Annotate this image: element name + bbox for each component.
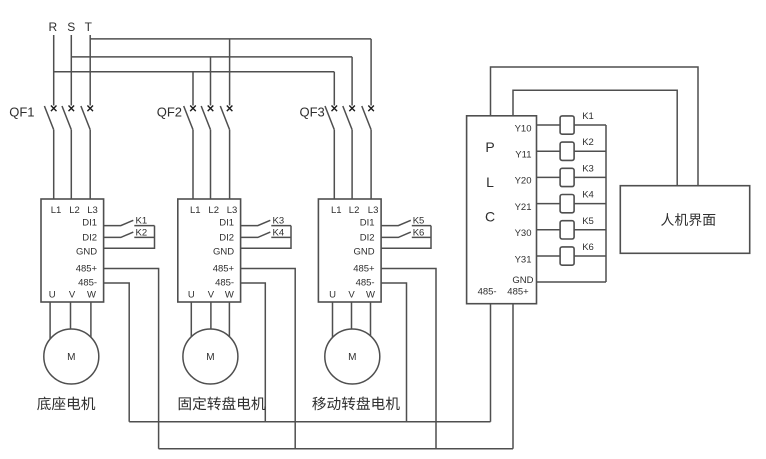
VFD3 inverter box bbox=[318, 199, 381, 302]
contact K4 (VFD2 DI2) bbox=[241, 227, 291, 238]
VFD2 inverter box bbox=[178, 199, 241, 302]
svg-text:DI2: DI2 bbox=[360, 233, 375, 244]
wire 485+ bottom bus bbox=[159, 448, 513, 450]
motor M3 bbox=[325, 329, 380, 384]
PLC terminal labels bbox=[478, 123, 534, 297]
PLC box bbox=[467, 116, 537, 304]
wire T bus bbox=[90, 38, 371, 40]
relay coil K3 bbox=[560, 163, 594, 186]
svg-text:K4: K4 bbox=[272, 227, 284, 238]
wire VFD1 contacts common to GND bbox=[104, 226, 155, 249]
wire PLC output Y30 row bbox=[537, 229, 607, 231]
relay coil K5 bbox=[560, 216, 594, 239]
svg-text:K5: K5 bbox=[413, 216, 425, 227]
svg-text:485+: 485+ bbox=[76, 264, 98, 275]
wire VFD2 485- bbox=[241, 283, 266, 422]
wire VFD1 485- bbox=[104, 283, 130, 422]
svg-text:K5: K5 bbox=[582, 216, 594, 227]
wire drop R bus to QF2 pole1 bbox=[192, 72, 194, 106]
svg-text:L2: L2 bbox=[69, 205, 80, 216]
svg-text:DI1: DI1 bbox=[219, 218, 234, 229]
wire PLC to HMI inner link bbox=[513, 90, 677, 186]
svg-text:485-: 485- bbox=[356, 278, 375, 289]
svg-text:M: M bbox=[67, 352, 75, 363]
svg-text:L: L bbox=[486, 174, 494, 190]
wire PLC 485- drop bbox=[490, 304, 492, 422]
wire drop R bus to QF3 pole1 bbox=[333, 72, 335, 106]
wire VFD3 485- bbox=[381, 283, 406, 422]
svg-text:K6: K6 bbox=[413, 227, 425, 238]
svg-text:M: M bbox=[348, 352, 356, 363]
svg-text:DI2: DI2 bbox=[219, 233, 234, 244]
svg-text:Y10: Y10 bbox=[515, 123, 532, 134]
wire relay common to PLC GND bbox=[537, 281, 607, 283]
svg-text:485-: 485- bbox=[78, 278, 97, 289]
wire PLC output Y11 row bbox=[537, 150, 607, 152]
HMI box 人机界面 bbox=[620, 186, 749, 254]
wire VFD2 contacts common to GND bbox=[241, 226, 291, 249]
svg-text:K2: K2 bbox=[582, 137, 594, 148]
svg-text:U: U bbox=[49, 290, 56, 301]
svg-text:L1: L1 bbox=[331, 205, 342, 216]
svg-text:485+: 485+ bbox=[353, 264, 375, 275]
motor1 caption 底座电机 bbox=[37, 397, 95, 411]
svg-text:L3: L3 bbox=[368, 205, 379, 216]
svg-text:K3: K3 bbox=[272, 216, 284, 227]
motor3 caption 移动转盘电机 bbox=[312, 397, 399, 411]
wire motor2 U V W leads bbox=[191, 302, 229, 345]
wire 485- bottom bus bbox=[129, 421, 490, 423]
wire R bus bbox=[54, 71, 335, 73]
circuit breaker QF3 (3 poles with x contacts and blades) bbox=[325, 106, 374, 200]
relay coil K2 bbox=[560, 137, 594, 160]
motor M1 bbox=[44, 329, 99, 384]
svg-text:485+: 485+ bbox=[507, 287, 529, 298]
circuit breaker QF1 (3 poles with x contacts and blades) bbox=[44, 106, 93, 200]
wire drop S bus to QF3 pole2 bbox=[351, 57, 353, 106]
wire VFD2 485+ bbox=[241, 269, 296, 449]
svg-text:L3: L3 bbox=[227, 205, 238, 216]
wire PLC 485+ drop bbox=[512, 304, 514, 449]
wire S bus bbox=[71, 56, 352, 58]
svg-text:DI1: DI1 bbox=[82, 218, 97, 229]
svg-text:M: M bbox=[206, 352, 214, 363]
svg-text:W: W bbox=[87, 290, 96, 301]
VFD2 terminal labels bbox=[188, 205, 237, 301]
relay coil K6 bbox=[560, 242, 594, 265]
svg-text:QF2: QF2 bbox=[157, 104, 182, 119]
svg-text:Y21: Y21 bbox=[515, 202, 532, 213]
svg-text:GND: GND bbox=[76, 247, 97, 258]
relay coil K4 bbox=[560, 190, 594, 213]
contact K5 (VFD3 DI1) bbox=[381, 216, 431, 227]
wire drop T bus to QF3 pole3 bbox=[370, 39, 372, 106]
VFD3 terminal labels bbox=[329, 205, 378, 301]
wire PLC output Y21 row bbox=[537, 203, 607, 205]
svg-text:L1: L1 bbox=[51, 205, 62, 216]
motor M2 bbox=[183, 329, 238, 384]
contact K3 (VFD2 DI1) bbox=[241, 216, 291, 227]
svg-text:Y20: Y20 bbox=[515, 176, 532, 187]
svg-text:K1: K1 bbox=[135, 216, 147, 227]
svg-text:K4: K4 bbox=[582, 190, 594, 201]
wire relay common bus bbox=[605, 125, 607, 282]
svg-text:Y31: Y31 bbox=[515, 254, 532, 265]
svg-text:K3: K3 bbox=[582, 163, 594, 174]
svg-text:R: R bbox=[48, 20, 57, 34]
contact K6 (VFD3 DI2) bbox=[381, 227, 431, 238]
svg-text:Y11: Y11 bbox=[515, 150, 531, 161]
wire PLC to HMI outer link bbox=[491, 67, 699, 186]
svg-text:L2: L2 bbox=[349, 205, 360, 216]
wire phase R vertical bbox=[53, 35, 55, 106]
VFD1 terminal labels bbox=[49, 205, 98, 301]
wire VFD3 contacts common to GND bbox=[381, 226, 431, 249]
svg-text:QF1: QF1 bbox=[9, 104, 34, 119]
svg-text:QF3: QF3 bbox=[300, 104, 325, 119]
svg-text:GND: GND bbox=[512, 275, 533, 286]
relay coil K1 bbox=[560, 111, 594, 134]
svg-text:L1: L1 bbox=[190, 205, 201, 216]
motor2 caption 固定转盘电机 bbox=[179, 397, 266, 411]
wire drop S bus to QF2 pole2 bbox=[210, 57, 212, 106]
wire motor3 U V W leads bbox=[333, 302, 371, 345]
contact K1 (VFD1 DI1) bbox=[104, 216, 155, 227]
wire phase T vertical bbox=[89, 35, 91, 106]
svg-text:GND: GND bbox=[353, 247, 374, 258]
svg-text:L3: L3 bbox=[87, 205, 98, 216]
wire PLC output Y20 row bbox=[537, 176, 607, 178]
svg-text:485-: 485- bbox=[215, 278, 234, 289]
wire VFD3 485+ bbox=[381, 269, 436, 449]
svg-text:U: U bbox=[329, 290, 336, 301]
svg-text:485+: 485+ bbox=[213, 264, 235, 275]
VFD1 inverter box bbox=[41, 199, 104, 302]
svg-text:V: V bbox=[69, 290, 76, 301]
svg-text:V: V bbox=[208, 290, 215, 301]
svg-text:P: P bbox=[485, 139, 494, 155]
svg-text:K2: K2 bbox=[135, 227, 147, 238]
wire PLC output Y10 row bbox=[537, 124, 607, 126]
svg-text:DI2: DI2 bbox=[82, 233, 97, 244]
svg-text:U: U bbox=[188, 290, 195, 301]
svg-text:K6: K6 bbox=[582, 242, 594, 253]
svg-text:W: W bbox=[366, 290, 375, 301]
svg-text:DI1: DI1 bbox=[360, 218, 375, 229]
PLC label P L C bbox=[485, 139, 495, 225]
svg-text:K1: K1 bbox=[582, 111, 594, 122]
svg-text:V: V bbox=[348, 290, 355, 301]
circuit breaker QF2 (3 poles with x contacts and blades) bbox=[184, 106, 233, 200]
contact K2 (VFD1 DI2) bbox=[104, 227, 155, 238]
wire drop T bus to QF2 pole3 bbox=[229, 39, 231, 106]
svg-text:C: C bbox=[485, 209, 495, 225]
svg-text:T: T bbox=[85, 20, 93, 34]
svg-text:GND: GND bbox=[213, 247, 234, 258]
svg-text:S: S bbox=[67, 20, 75, 34]
svg-text:485-: 485- bbox=[478, 287, 497, 298]
svg-text:L2: L2 bbox=[208, 205, 219, 216]
svg-text:Y30: Y30 bbox=[515, 228, 532, 239]
wire motor1 U V W leads bbox=[50, 302, 91, 345]
wire PLC output Y31 row bbox=[537, 255, 607, 257]
svg-text:W: W bbox=[225, 290, 234, 301]
wire VFD1 485+ bbox=[104, 269, 159, 449]
wire phase S vertical bbox=[70, 35, 72, 106]
